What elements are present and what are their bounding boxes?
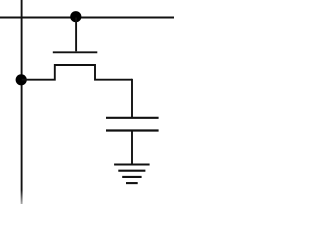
transistor M1: gate lead wire: [75, 18, 77, 52]
capacitor C1: bottom plate: [106, 129, 159, 131]
ground symbol: [114, 165, 150, 184]
wire: word line (top horizontal rail): [0, 17, 174, 19]
capacitor C1: top plate: [106, 117, 159, 119]
node: junction dot on bit line: [16, 74, 27, 85]
node: junction dot on word line: [70, 11, 81, 22]
wire: storage node down to capacitor: [131, 79, 133, 118]
wire: capacitor to ground lead: [131, 131, 133, 165]
transistor M1: gate bar: [53, 51, 98, 53]
transistor M1: channel (source-drain stepped path): [22, 65, 132, 80]
